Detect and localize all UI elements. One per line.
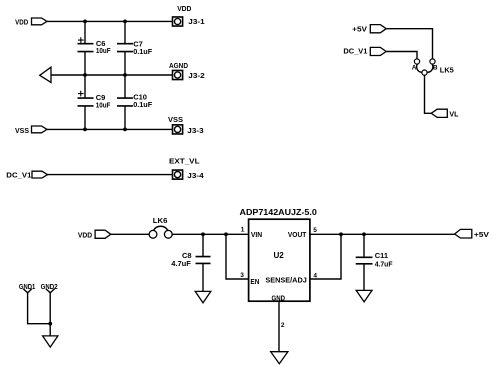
connector J3-2 <box>169 61 205 80</box>
svg-text:2: 2 <box>281 322 285 329</box>
svg-text:J3-2: J3-2 <box>188 71 204 80</box>
junction SENSE feedback <box>339 232 343 236</box>
junction EN branch <box>224 232 228 236</box>
connector J3-4 <box>169 157 204 181</box>
wire GND pin 2 <box>278 301 280 352</box>
svg-text:4.7uF: 4.7uF <box>375 259 393 268</box>
ground under C11 <box>356 290 372 302</box>
junction VDD/C7 <box>123 20 127 24</box>
wire VDD row <box>47 20 173 22</box>
junction C11 <box>362 232 366 236</box>
port VSS <box>15 126 47 135</box>
capacitor C8 <box>171 251 210 268</box>
jumper LK6 <box>149 216 172 238</box>
wire C8 top lead <box>202 234 204 256</box>
jumper LK5 <box>412 59 454 75</box>
port DC_V1 (top-right) <box>343 47 386 56</box>
wire VDD to LK6 <box>111 233 149 235</box>
wire C9 top lead <box>84 75 86 98</box>
ground GND1/GND2 <box>43 336 58 347</box>
junction AGND/C6 <box>83 73 87 77</box>
wire C9 bottom lead <box>84 106 86 129</box>
svg-text:0.1uF: 0.1uF <box>133 100 152 109</box>
svg-text:VIN: VIN <box>251 230 262 239</box>
wire LK5 to VL <box>425 75 432 113</box>
connector J3-3 <box>168 115 204 135</box>
capacitor C7 <box>117 39 153 56</box>
svg-text:VOUT: VOUT <box>288 230 307 239</box>
capacitor C9 <box>78 91 111 110</box>
svg-text:LK6: LK6 <box>153 216 168 225</box>
svg-text:VL: VL <box>449 110 458 119</box>
capacitor C10 <box>117 92 153 109</box>
wire EN branch <box>226 234 249 279</box>
svg-text:0.1uF: 0.1uF <box>133 47 152 56</box>
svg-text:VSS: VSS <box>15 126 29 135</box>
wire LK6 to VIN <box>172 233 248 235</box>
junction VSS/C10 <box>123 127 127 131</box>
svg-text:5: 5 <box>313 227 317 234</box>
wire C11 bottom lead <box>363 264 365 291</box>
svg-text:DC_V1: DC_V1 <box>6 171 31 180</box>
wire GND2 down <box>49 293 51 324</box>
svg-text:4.7uF: 4.7uF <box>171 259 191 268</box>
capacitor C6 <box>78 37 111 55</box>
svg-text:U2: U2 <box>274 250 284 260</box>
wire to ground <box>49 324 51 336</box>
ground under C8 <box>195 291 211 303</box>
svg-text:J3-1: J3-1 <box>188 17 204 26</box>
svg-text:GND2: GND2 <box>41 282 58 291</box>
IC U2 regulator ADP7142AUJZ-5.0 <box>240 207 318 302</box>
wire AGND row <box>51 74 173 76</box>
port GND2 <box>41 282 58 293</box>
port GND1 <box>19 282 35 293</box>
svg-text:ADP7142AUJZ-5.0: ADP7142AUJZ-5.0 <box>240 207 318 217</box>
port VL <box>431 109 459 118</box>
svg-text:EXT_VL: EXT_VL <box>169 157 200 166</box>
svg-text:AGND: AGND <box>169 61 188 70</box>
junction GND net <box>48 322 52 326</box>
ground under U2 <box>271 352 288 364</box>
svg-text:+5V: +5V <box>352 25 367 34</box>
wire C10 bottom lead <box>124 106 126 129</box>
svg-text:VDD: VDD <box>177 4 192 13</box>
svg-text:VDD: VDD <box>78 231 93 240</box>
wire GND1 down and right <box>28 293 51 324</box>
port VDD (bottom) <box>78 230 111 239</box>
wire C11 top lead <box>363 234 365 257</box>
svg-text:+5V: +5V <box>474 230 489 239</box>
svg-text:1: 1 <box>241 227 245 234</box>
junction AGND/C10 <box>123 73 127 77</box>
wire C7 top lead <box>124 21 126 43</box>
wire C6 bottom lead <box>84 52 86 75</box>
svg-text:GND1: GND1 <box>19 282 35 291</box>
svg-text:J3-3: J3-3 <box>187 126 203 135</box>
svg-text:GND: GND <box>272 293 286 302</box>
svg-text:VSS: VSS <box>168 115 183 124</box>
wire C7 bottom lead <box>124 52 126 75</box>
junction C8 <box>201 232 205 236</box>
port +5V (top-right) <box>352 25 386 34</box>
svg-text:VDD: VDD <box>15 17 29 26</box>
svg-text:10uF: 10uF <box>96 100 111 109</box>
wire C8 bottom lead <box>202 263 204 291</box>
svg-text:B: B <box>433 64 438 71</box>
port DC_V1 (left) <box>6 171 47 180</box>
wire +5V to LK5 B <box>386 29 432 59</box>
connector J3-1 <box>173 4 205 26</box>
port +5V (bottom-right) <box>455 229 489 238</box>
wire SENSE/ADJ feedback <box>310 234 341 279</box>
port VDD (top-left) <box>15 17 47 26</box>
ground AGND triangle (left pointing) <box>40 67 51 82</box>
junction VDD/C6 <box>83 20 87 24</box>
wire C6 top lead <box>84 21 86 43</box>
svg-text:A: A <box>412 64 417 71</box>
junction VSS/C9 <box>83 127 87 131</box>
wire DC_V1 to LK5 A <box>386 52 417 59</box>
wire VSS row <box>47 128 173 130</box>
svg-text:10uF: 10uF <box>96 46 111 55</box>
svg-text:DC_V1: DC_V1 <box>343 47 367 56</box>
wire VOUT rail <box>310 233 455 235</box>
wire C10 top lead <box>124 75 126 98</box>
svg-text:3: 3 <box>240 272 244 279</box>
svg-text:LK5: LK5 <box>440 66 454 75</box>
svg-text:EN: EN <box>250 277 259 286</box>
capacitor C11 <box>356 251 393 268</box>
svg-text:J3-4: J3-4 <box>187 171 204 180</box>
svg-text:SENSE/ADJ: SENSE/ADJ <box>265 275 306 284</box>
wire DC_V1 row <box>48 174 173 176</box>
